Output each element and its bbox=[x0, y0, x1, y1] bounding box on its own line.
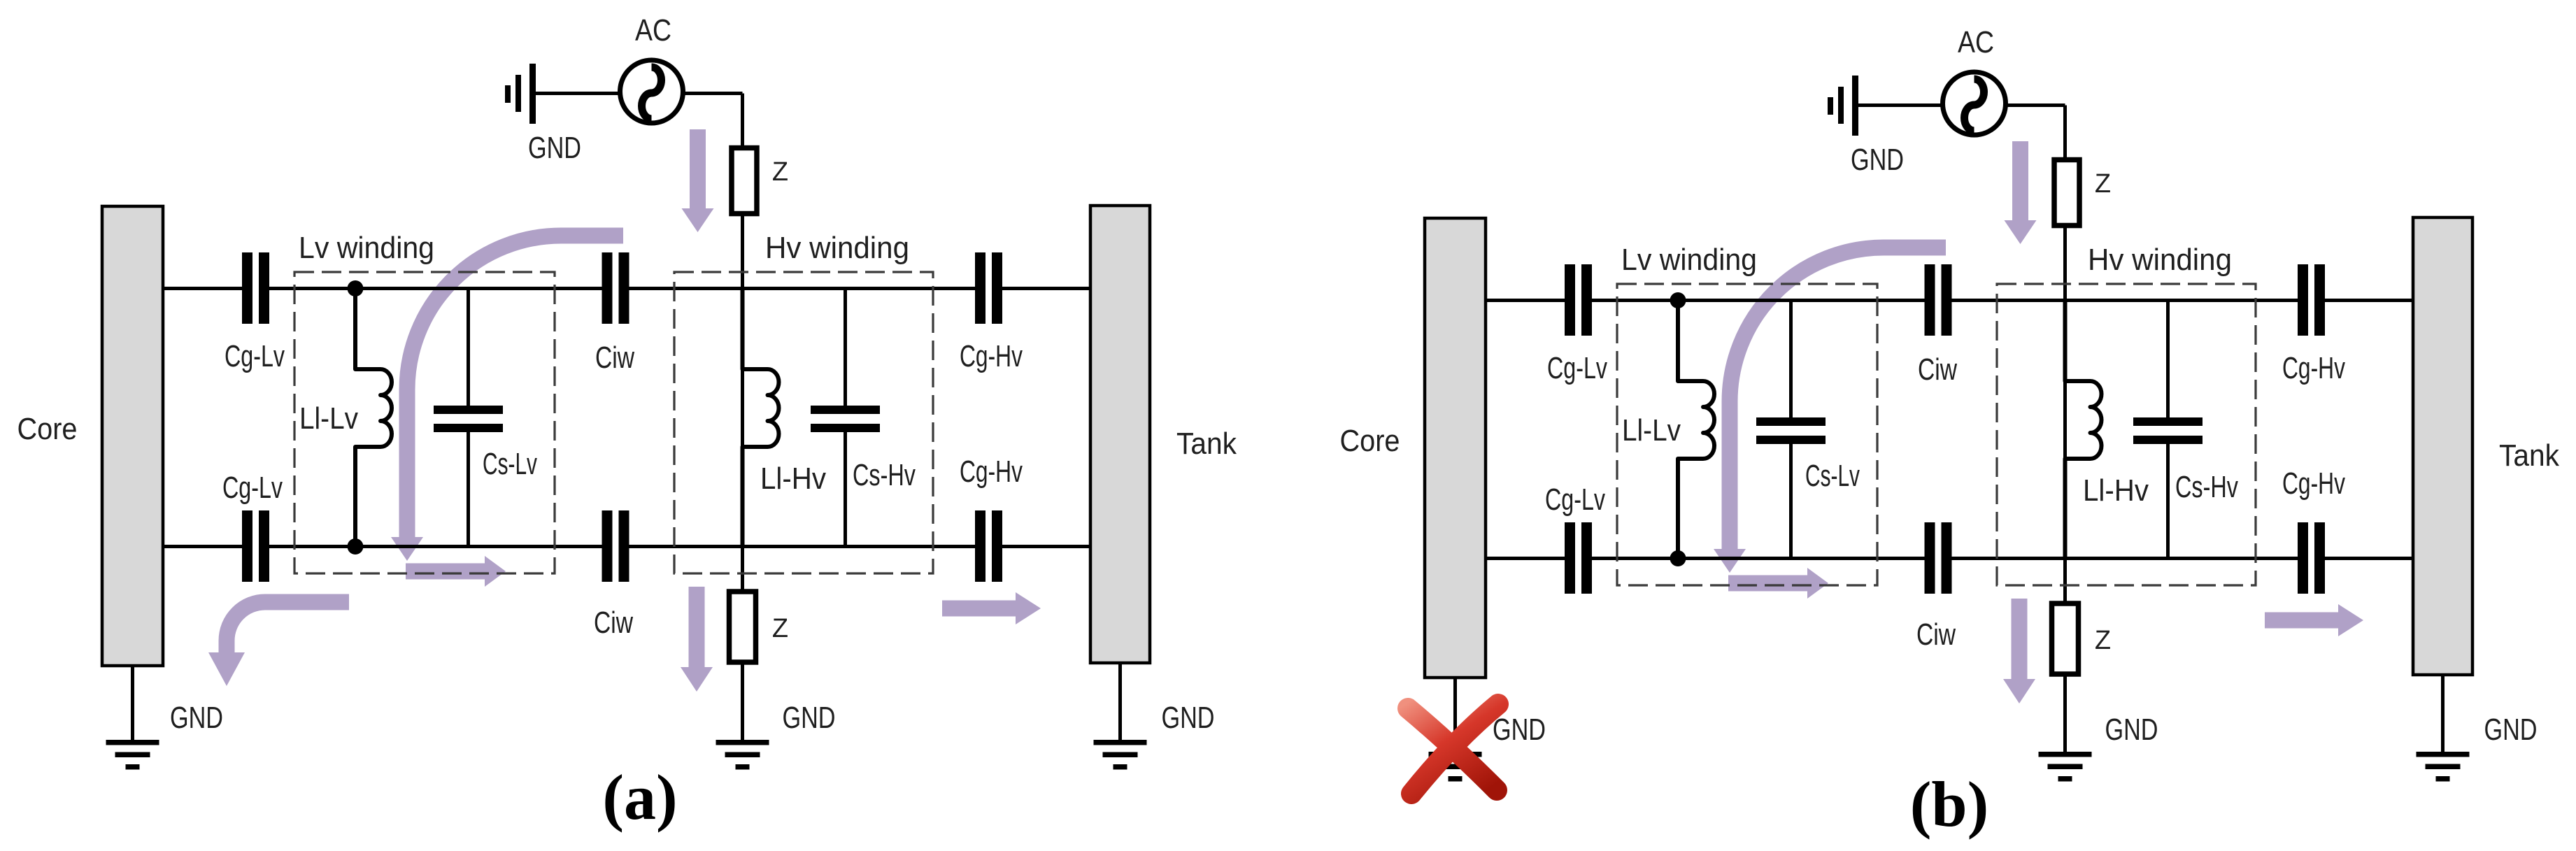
svg-text:(a): (a) bbox=[602, 761, 677, 833]
svg-text:(b): (b) bbox=[1910, 768, 1988, 840]
